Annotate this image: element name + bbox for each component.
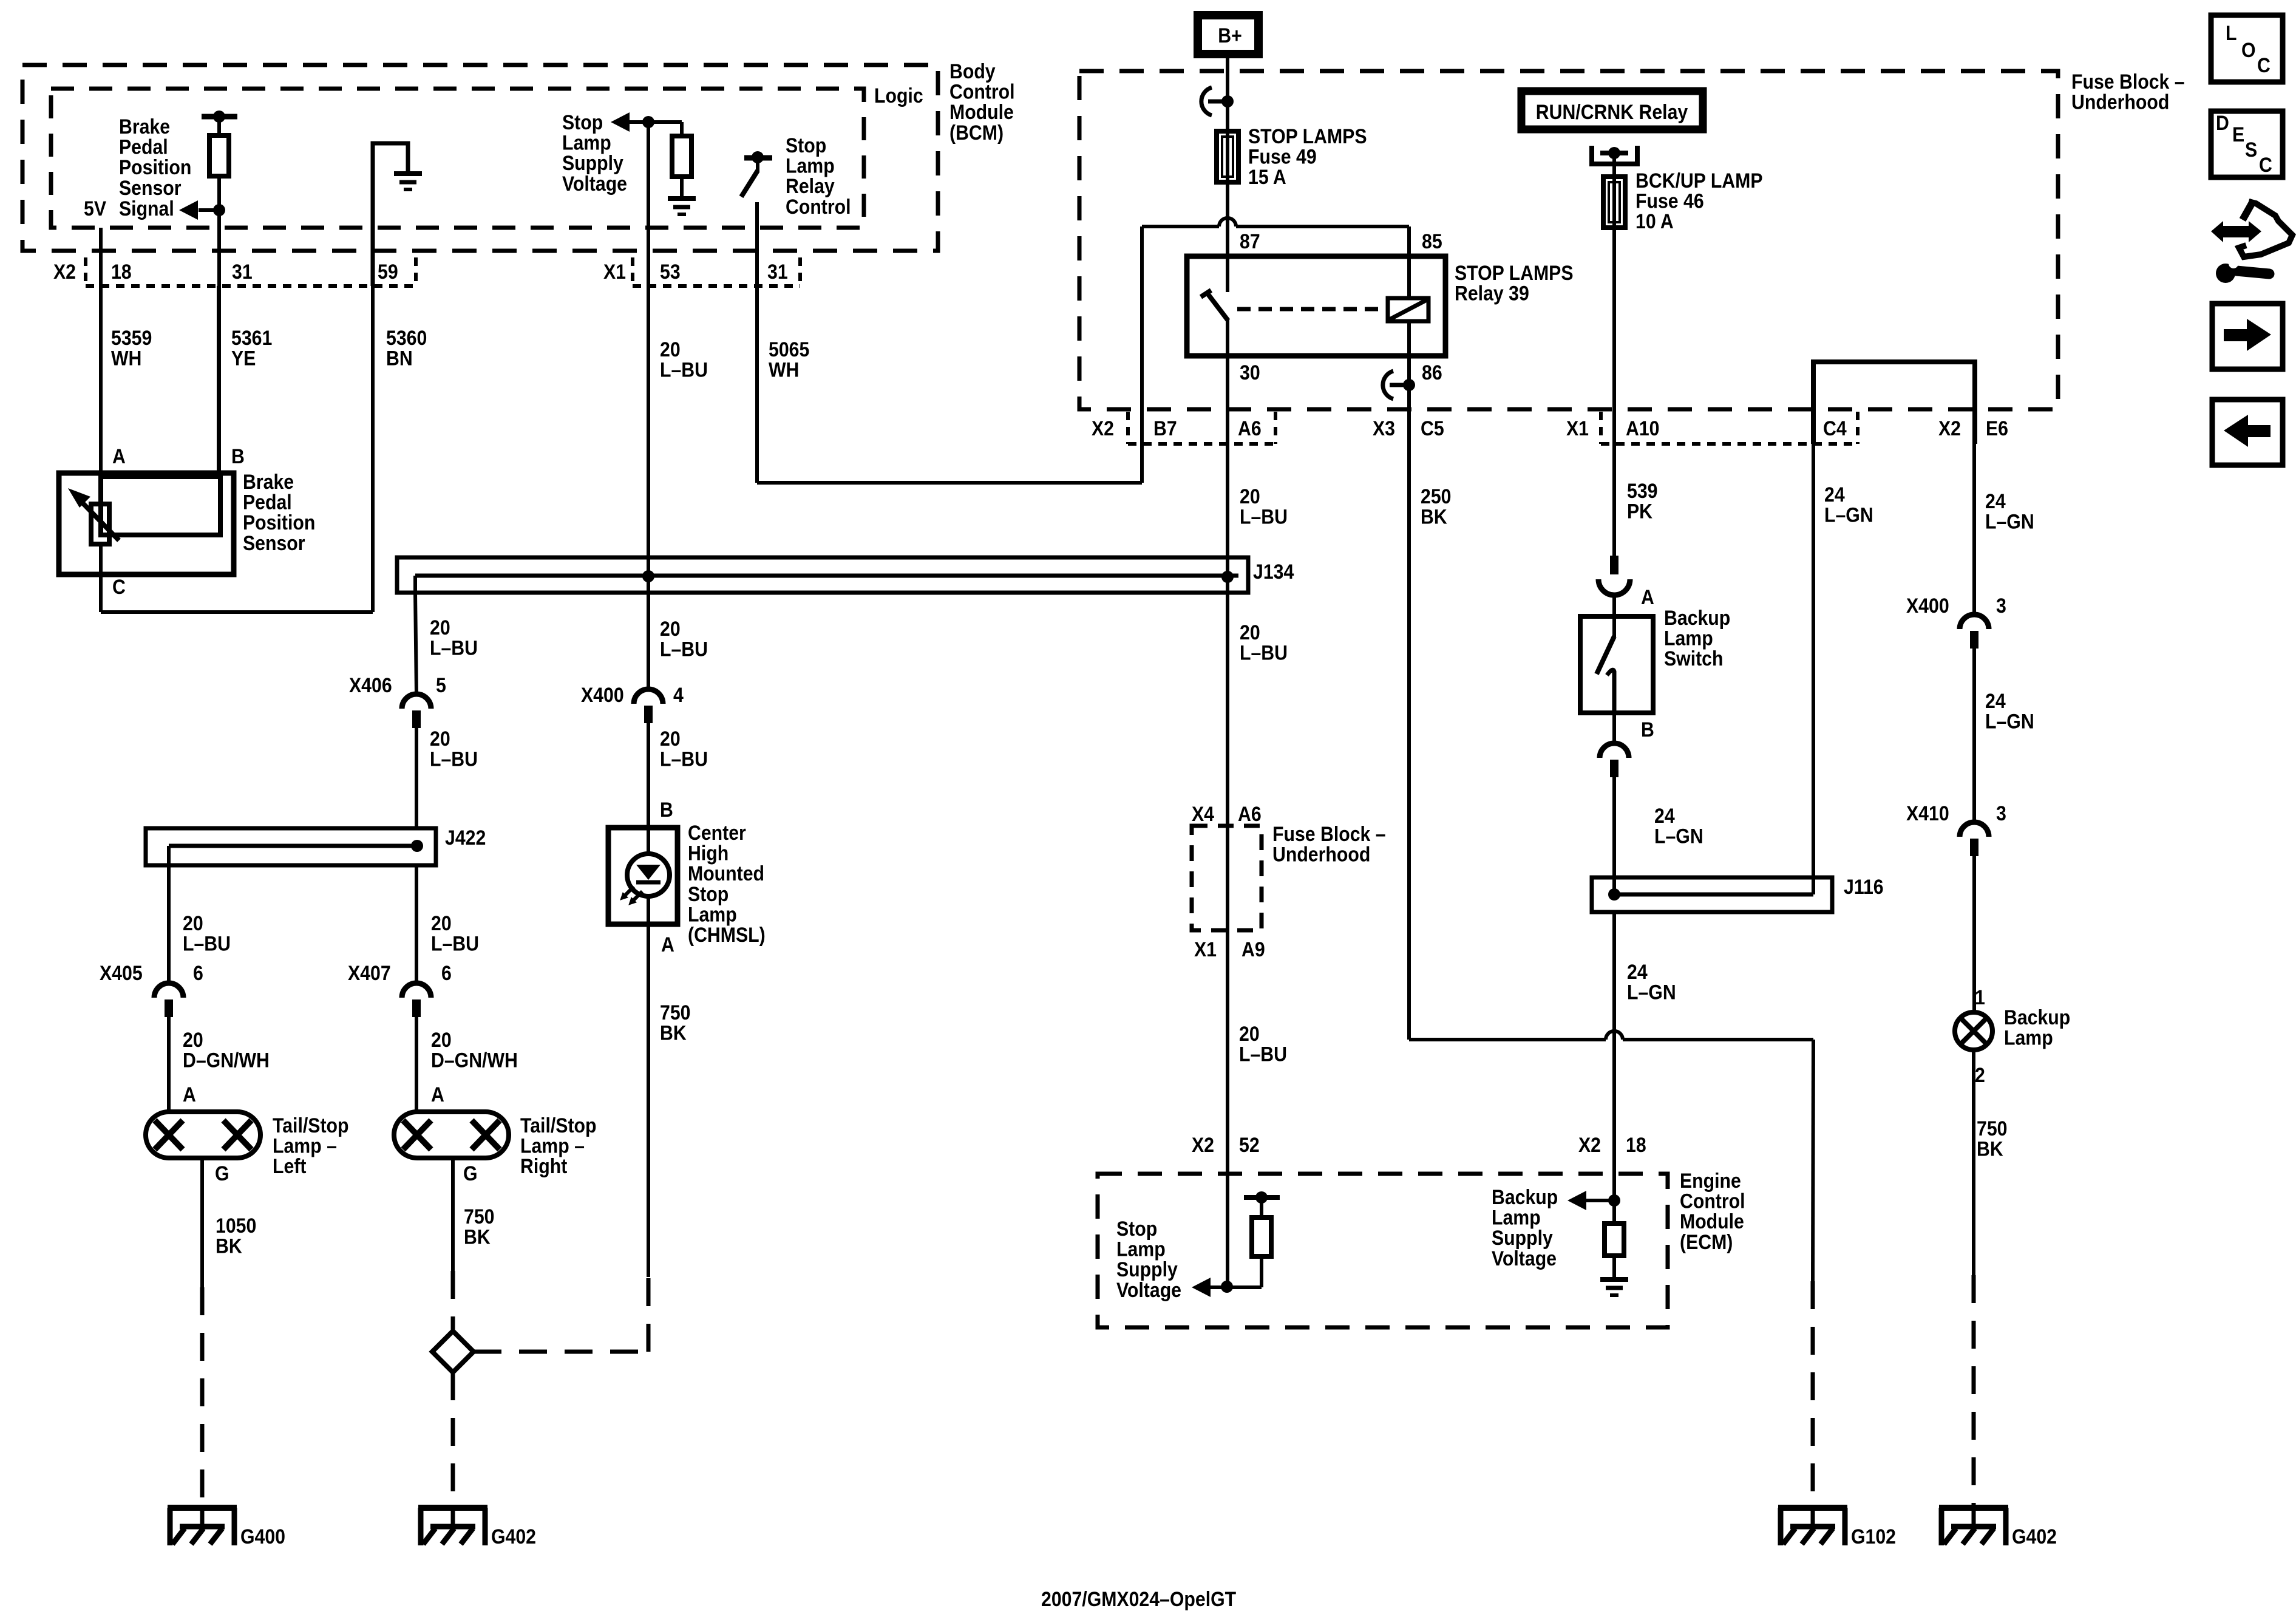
svg-text:5360: 5360	[386, 326, 427, 349]
svg-text:Brake: Brake	[243, 470, 294, 493]
svg-text:STOP LAMPS: STOP LAMPS	[1455, 261, 1574, 284]
wire A6/J134 to ECM 52	[1226, 577, 1229, 1287]
wire backup lamp to G402	[1972, 1050, 1975, 1275]
svg-text:C4: C4	[1823, 417, 1847, 440]
wire X400 to CHMSL	[647, 721, 650, 828]
svg-text:Lamp: Lamp	[1664, 627, 1713, 650]
connector X406 pin 5	[402, 694, 431, 709]
wire sensor B drop	[217, 286, 220, 477]
svg-text:L–BU: L–BU	[430, 747, 478, 771]
svg-text:L–GN: L–GN	[1985, 510, 2034, 533]
svg-text:X410: X410	[1906, 802, 1949, 825]
svg-text:STOP LAMPS: STOP LAMPS	[1248, 124, 1367, 148]
svg-text:Stop: Stop	[786, 134, 826, 157]
svg-text:B: B	[231, 444, 245, 468]
svg-text:L: L	[2226, 21, 2237, 44]
svg-text:Relay 39: Relay 39	[1455, 282, 1529, 305]
resistor BPPS 5V supply (BCM)	[202, 114, 237, 120]
connector X400 pin 4	[647, 576, 650, 689]
svg-text:L–BU: L–BU	[431, 932, 479, 955]
wire CHMSL to ground splice	[647, 924, 650, 1277]
Tail/Stop Lamp - Left	[146, 1112, 260, 1158]
svg-text:X2: X2	[1938, 417, 1961, 440]
svg-text:X400: X400	[581, 683, 624, 706]
potentiometer wiper arrow	[79, 499, 119, 540]
svg-text:1: 1	[1975, 986, 1985, 1009]
splice diamond (ground splice)	[432, 1331, 474, 1372]
ground G402 (left)	[418, 1505, 487, 1511]
svg-text:Lamp –: Lamp –	[520, 1134, 585, 1157]
svg-text:BK: BK	[1421, 505, 1447, 528]
B+ power symbol	[1198, 15, 1258, 54]
svg-text:E: E	[2232, 123, 2244, 146]
svg-text:A: A	[112, 444, 126, 468]
svg-text:Fuse 49: Fuse 49	[1248, 145, 1317, 168]
svg-text:Sensor: Sensor	[243, 531, 305, 554]
svg-text:J422: J422	[445, 826, 486, 849]
tap junction at relay 86	[1383, 371, 1393, 399]
wire B7 drop	[1140, 226, 1144, 483]
splice J422	[146, 828, 436, 865]
wire 5359 WH BCM pin18 to sensor A	[99, 228, 103, 504]
resistor stop lamp supply sense (BCM)	[680, 122, 684, 136]
relay feed horizontal (87/85 top bus)	[1142, 225, 1219, 228]
svg-text:L–BU: L–BU	[1239, 1043, 1287, 1066]
svg-text:3: 3	[1996, 802, 2006, 825]
wire left lamp G to G400	[200, 1158, 204, 1287]
svg-text:X2: X2	[1578, 1133, 1601, 1156]
backup lamp supply voltage arrow (ECM)	[1567, 1191, 1586, 1210]
svg-text:Stop: Stop	[688, 882, 729, 905]
connector X407 pin 6	[402, 983, 431, 998]
svg-text:Control: Control	[1680, 1190, 1745, 1213]
svg-text:539: 539	[1627, 479, 1657, 502]
svg-text:X2: X2	[1192, 1133, 1214, 1156]
svg-text:750: 750	[1977, 1117, 2007, 1140]
connector X410 pin 3	[1960, 822, 1989, 837]
RUN/CRNK output socket	[1589, 146, 1594, 166]
svg-text:B: B	[1641, 718, 1654, 741]
svg-text:Voltage: Voltage	[1116, 1278, 1181, 1301]
svg-text:Backup: Backup	[2004, 1006, 2070, 1029]
svg-text:BCK/UP LAMP: BCK/UP LAMP	[1635, 169, 1763, 192]
svg-text:24: 24	[1824, 483, 1845, 506]
svg-text:A: A	[661, 933, 674, 956]
svg-text:Tail/Stop: Tail/Stop	[273, 1114, 348, 1137]
svg-text:X405: X405	[100, 961, 143, 984]
svg-text:6: 6	[193, 961, 203, 984]
svg-text:(ECM): (ECM)	[1680, 1230, 1733, 1253]
svg-text:(CHMSL): (CHMSL)	[688, 923, 766, 946]
svg-text:20: 20	[430, 616, 450, 639]
svg-text:D–GN/WH: D–GN/WH	[183, 1049, 270, 1072]
svg-text:20: 20	[660, 338, 681, 361]
svg-text:G402: G402	[2012, 1525, 2057, 1548]
tap junction below B+	[1201, 87, 1212, 115]
svg-text:750: 750	[660, 1001, 690, 1024]
stop lamp supply voltage arrow (BCM)	[611, 112, 630, 132]
svg-text:18: 18	[1626, 1133, 1646, 1156]
svg-text:G: G	[463, 1162, 478, 1185]
connector X405 pin 6	[154, 983, 183, 998]
svg-text:A9: A9	[1241, 938, 1265, 961]
wire J116 down to ECM 18	[1612, 912, 1616, 1200]
wire switch B to J116	[1612, 777, 1616, 894]
svg-text:G402: G402	[491, 1525, 536, 1548]
Stop Lamp Relay Control switch (BCM)	[744, 155, 772, 161]
svg-text:Sensor: Sensor	[119, 176, 182, 199]
wrench icon	[2216, 264, 2235, 283]
svg-text:Lamp: Lamp	[2004, 1026, 2053, 1049]
svg-text:L–GN: L–GN	[1824, 503, 1873, 526]
resistor stop lamp sense (ECM)	[1244, 1195, 1280, 1200]
Tail/Stop Lamp - Right	[394, 1112, 509, 1158]
svg-text:L–GN: L–GN	[1654, 825, 1703, 848]
svg-text:BK: BK	[464, 1225, 491, 1248]
relay coil	[1388, 298, 1428, 321]
svg-text:L–BU: L–BU	[660, 638, 708, 661]
Engine Control Module (ECM) box	[1098, 1174, 1668, 1327]
svg-text:A6: A6	[1238, 417, 1262, 440]
svg-text:C: C	[112, 575, 126, 598]
Body Control Module (BCM) box	[22, 65, 938, 251]
svg-text:87: 87	[1240, 230, 1260, 253]
svg-text:Brake: Brake	[119, 115, 170, 138]
node 5V signal arrow	[213, 204, 225, 216]
svg-text:A: A	[431, 1083, 444, 1106]
svg-text:Left: Left	[273, 1155, 307, 1178]
Center High Mounted Stop Lamp box	[608, 828, 678, 924]
svg-text:20: 20	[183, 1028, 203, 1051]
svg-text:D–GN/WH: D–GN/WH	[431, 1049, 518, 1072]
wire J422 to X405	[167, 865, 171, 983]
svg-text:Stop: Stop	[1116, 1217, 1157, 1240]
svg-text:Pedal: Pedal	[119, 135, 168, 158]
svg-text:B7: B7	[1153, 417, 1177, 440]
RUN/CRNK Relay box	[1521, 91, 1703, 129]
svg-text:Engine: Engine	[1680, 1169, 1741, 1192]
svg-text:C5: C5	[1421, 417, 1444, 440]
svg-text:5361: 5361	[231, 326, 272, 349]
wire J116 up to C4	[1812, 444, 1815, 894]
svg-text:X1: X1	[603, 260, 626, 283]
wire fuse46 to A10	[1612, 153, 1616, 556]
svg-text:BN: BN	[386, 347, 413, 370]
svg-text:L–BU: L–BU	[1240, 505, 1288, 528]
svg-text:X4: X4	[1192, 802, 1214, 825]
BCM connector X2 row (pins 18 31 59)	[84, 257, 87, 286]
svg-text:31: 31	[232, 260, 253, 283]
svg-text:G: G	[215, 1162, 229, 1185]
svg-text:Module: Module	[949, 101, 1014, 124]
svg-text:L–GN: L–GN	[1627, 981, 1676, 1004]
wire X405 to tail lamp left	[167, 1015, 171, 1112]
wire to relay 85	[1407, 226, 1411, 256]
svg-text:5: 5	[436, 673, 446, 696]
svg-text:24: 24	[1985, 689, 2006, 712]
svg-text:20: 20	[431, 1028, 452, 1051]
svg-text:3: 3	[1996, 594, 2006, 617]
wire 5360 BN	[371, 286, 375, 612]
svg-text:Body: Body	[949, 60, 996, 83]
LED symbol (CHMSL)	[627, 854, 670, 896]
svg-text:Lamp: Lamp	[562, 131, 611, 154]
ground G400	[168, 1505, 237, 1511]
connector B (arc + blade)	[1612, 713, 1616, 743]
svg-text:Supply: Supply	[1116, 1258, 1178, 1281]
svg-text:B+: B+	[1218, 24, 1242, 47]
connector A (blade into cup)	[1610, 556, 1618, 574]
ground G102	[1778, 1505, 1847, 1511]
Backup Lamp Switch box	[1580, 616, 1653, 713]
wire 20 L-BU BCM pin53 down	[647, 122, 650, 576]
svg-text:Tail/Stop: Tail/Stop	[520, 1114, 596, 1137]
svg-text:Mounted: Mounted	[688, 862, 764, 885]
svg-text:59: 59	[378, 260, 398, 283]
svg-text:Voltage: Voltage	[562, 172, 627, 195]
Fuse Block - Underhood box	[1079, 71, 2058, 409]
stop lamp supply voltage arrow (ECM)	[1192, 1278, 1211, 1297]
svg-text:Center: Center	[688, 821, 746, 844]
fuse F46 BCK/UP LAMP 10A	[1612, 153, 1616, 177]
wire 250 BK C5 to G102	[1409, 1038, 1606, 1041]
svg-text:C: C	[2257, 53, 2271, 77]
svg-text:G102: G102	[1851, 1525, 1896, 1548]
svg-text:18: 18	[111, 260, 132, 283]
svg-text:A10: A10	[1626, 417, 1660, 440]
svg-text:YE: YE	[231, 347, 256, 370]
hand with double arrow icon	[2211, 221, 2261, 242]
fuse block pass-through connector box	[1192, 826, 1262, 930]
svg-text:20: 20	[1240, 621, 1260, 644]
svg-text:X1: X1	[1566, 417, 1589, 440]
svg-text:A: A	[183, 1083, 196, 1106]
svg-text:Backup: Backup	[1492, 1185, 1558, 1208]
svg-text:20: 20	[1240, 485, 1260, 508]
wire relay 30 to A6	[1226, 356, 1229, 576]
svg-text:X400: X400	[1906, 594, 1949, 617]
svg-text:PK: PK	[1627, 500, 1652, 523]
right arrow icon box	[2212, 304, 2283, 369]
wire diamond to G402	[451, 1372, 455, 1509]
svg-text:X406: X406	[349, 673, 392, 696]
svg-text:6: 6	[441, 961, 452, 984]
svg-text:X2: X2	[1092, 417, 1114, 440]
wire relay 86 to C5	[1407, 356, 1411, 1040]
svg-text:WH: WH	[111, 347, 141, 370]
svg-text:Backup: Backup	[1664, 606, 1730, 629]
svg-text:L–BU: L–BU	[660, 747, 708, 771]
wire fuse49 to relay 87	[1226, 129, 1229, 256]
svg-text:Pedal: Pedal	[243, 491, 292, 514]
svg-text:L–BU: L–BU	[1240, 641, 1288, 664]
svg-text:85: 85	[1422, 230, 1442, 253]
svg-text:Lamp –: Lamp –	[273, 1134, 337, 1157]
svg-text:24: 24	[1654, 804, 1675, 827]
svg-text:20: 20	[660, 617, 681, 640]
svg-text:Fuse Block –: Fuse Block –	[2071, 70, 2185, 93]
svg-text:A6: A6	[1238, 802, 1262, 825]
svg-text:10 A: 10 A	[1635, 210, 1674, 233]
wire right lamp G to splice diamond	[451, 1158, 455, 1271]
svg-text:High: High	[688, 842, 729, 865]
svg-text:BK: BK	[1977, 1137, 2003, 1160]
svg-text:52: 52	[1239, 1133, 1260, 1156]
svg-text:4: 4	[673, 683, 684, 706]
svg-text:Lamp: Lamp	[1116, 1238, 1166, 1261]
potentiometer (sensor)	[91, 504, 109, 544]
svg-text:Underhood: Underhood	[2071, 90, 2169, 114]
relay actuation dashed link	[1237, 307, 1386, 312]
svg-text:30: 30	[1240, 361, 1260, 384]
svg-text:Lamp: Lamp	[1492, 1206, 1541, 1229]
svg-text:A: A	[1641, 585, 1654, 608]
svg-text:Supply: Supply	[562, 152, 623, 175]
connector X2 (B7 A6) sub-box	[1126, 412, 1130, 444]
svg-text:X1: X1	[1194, 938, 1217, 961]
svg-text:24: 24	[1627, 960, 1648, 983]
svg-text:Position: Position	[243, 511, 315, 534]
svg-text:J116: J116	[1844, 875, 1884, 898]
Backup Lamp	[1955, 1012, 1992, 1050]
svg-text:Switch: Switch	[1664, 647, 1723, 670]
resistor backup lamp sense + ground (ECM)	[1612, 1200, 1616, 1224]
svg-text:2: 2	[1975, 1063, 1985, 1086]
svg-text:BK: BK	[216, 1234, 242, 1258]
ground (BCM logic, pin 59 supply return)	[373, 143, 408, 286]
svg-text:1050: 1050	[216, 1214, 256, 1237]
LOC icon box	[2211, 15, 2283, 82]
svg-text:Fuse 46: Fuse 46	[1635, 189, 1704, 213]
svg-text:2007/GMX024–OpelGT: 2007/GMX024–OpelGT	[1041, 1587, 1236, 1610]
svg-text:RUN/CRNK Relay: RUN/CRNK Relay	[1536, 100, 1688, 123]
svg-text:Fuse Block –: Fuse Block –	[1272, 822, 1386, 845]
wire X407 to tail lamp right	[415, 1015, 418, 1112]
wire J422 to X407	[415, 865, 418, 983]
svg-text:L–BU: L–BU	[183, 932, 231, 955]
relay switch	[1226, 256, 1229, 292]
svg-text:20: 20	[660, 727, 681, 750]
svg-text:D: D	[2216, 111, 2229, 134]
Brake Pedal Position Sensor box	[59, 473, 234, 574]
wire X406 to J422	[415, 726, 418, 828]
wire 5065 WH relay control	[755, 202, 759, 483]
svg-text:S: S	[2245, 138, 2257, 161]
svg-text:Position: Position	[119, 156, 191, 179]
connector X400 pin 3	[1960, 615, 1989, 629]
fuse F49 STOP LAMPS 15A	[1217, 131, 1238, 182]
svg-text:O: O	[2241, 38, 2256, 61]
splice J116	[1592, 877, 1832, 912]
svg-text:(BCM): (BCM)	[949, 121, 1004, 144]
svg-text:5065: 5065	[769, 338, 809, 361]
DESC icon box	[2211, 111, 2283, 177]
relay box	[1187, 256, 1445, 356]
svg-text:Voltage: Voltage	[1492, 1247, 1557, 1270]
svg-text:Stop: Stop	[562, 111, 603, 134]
connector X1 (A10..C4) sub-box	[1599, 412, 1603, 444]
svg-text:Module: Module	[1680, 1210, 1744, 1233]
svg-text:J134: J134	[1253, 560, 1294, 583]
wire sensor C to 5360 BN	[99, 544, 103, 612]
dashed splice to CHMSL ground wire	[474, 1350, 648, 1354]
ground G402 (right)	[1939, 1505, 2008, 1511]
svg-text:L–BU: L–BU	[660, 358, 708, 381]
wire B7 to BCM X1 pin31	[757, 481, 1142, 485]
svg-text:20: 20	[430, 727, 450, 750]
wire J134 to X406	[415, 593, 416, 694]
svg-text:24: 24	[1985, 489, 2006, 512]
svg-text:750: 750	[464, 1205, 494, 1228]
left arrow icon box	[2212, 400, 2283, 465]
svg-text:L–BU: L–BU	[430, 636, 478, 659]
svg-text:15 A: 15 A	[1248, 166, 1286, 189]
svg-text:Underhood: Underhood	[1272, 843, 1370, 866]
svg-text:53: 53	[660, 260, 681, 283]
wire B+ to fuse 49	[1226, 58, 1229, 129]
svg-text:WH: WH	[769, 358, 799, 381]
wire E6 down	[1972, 444, 1976, 615]
wire 5361 YE BCM pin31 to sensor B	[217, 210, 221, 477]
svg-text:31: 31	[767, 260, 788, 283]
splice J134	[397, 557, 1248, 593]
svg-text:X407: X407	[348, 961, 391, 984]
svg-text:X2: X2	[53, 260, 76, 283]
svg-text:Lamp: Lamp	[688, 903, 737, 926]
BCM Logic box	[51, 89, 864, 228]
svg-text:BK: BK	[660, 1021, 687, 1044]
svg-text:L–GN: L–GN	[1985, 710, 2034, 733]
svg-text:G400: G400	[240, 1525, 285, 1548]
svg-text:Signal: Signal	[119, 197, 174, 220]
svg-text:20: 20	[1239, 1022, 1260, 1045]
svg-text:Lamp: Lamp	[786, 154, 835, 177]
svg-text:86: 86	[1422, 361, 1442, 384]
fuse block internal pass-through C4 to E6	[1813, 362, 1975, 444]
svg-text:E6: E6	[1986, 417, 2008, 440]
svg-text:250: 250	[1421, 485, 1451, 508]
svg-text:Control: Control	[786, 195, 851, 218]
BCM connector X1 row (pins 53 31)	[631, 257, 634, 286]
svg-text:Supply: Supply	[1492, 1227, 1553, 1250]
svg-text:Control: Control	[949, 80, 1015, 103]
svg-text:Relay: Relay	[786, 175, 835, 198]
svg-text:20: 20	[183, 911, 203, 935]
svg-text:Right: Right	[520, 1155, 568, 1178]
svg-text:B: B	[660, 798, 673, 821]
svg-text:20: 20	[431, 911, 452, 935]
svg-text:Logic: Logic	[874, 84, 923, 107]
svg-text:X3: X3	[1373, 417, 1395, 440]
svg-text:C: C	[2259, 153, 2272, 176]
svg-text:5359: 5359	[111, 326, 152, 349]
svg-text:5V: 5V	[84, 197, 107, 220]
